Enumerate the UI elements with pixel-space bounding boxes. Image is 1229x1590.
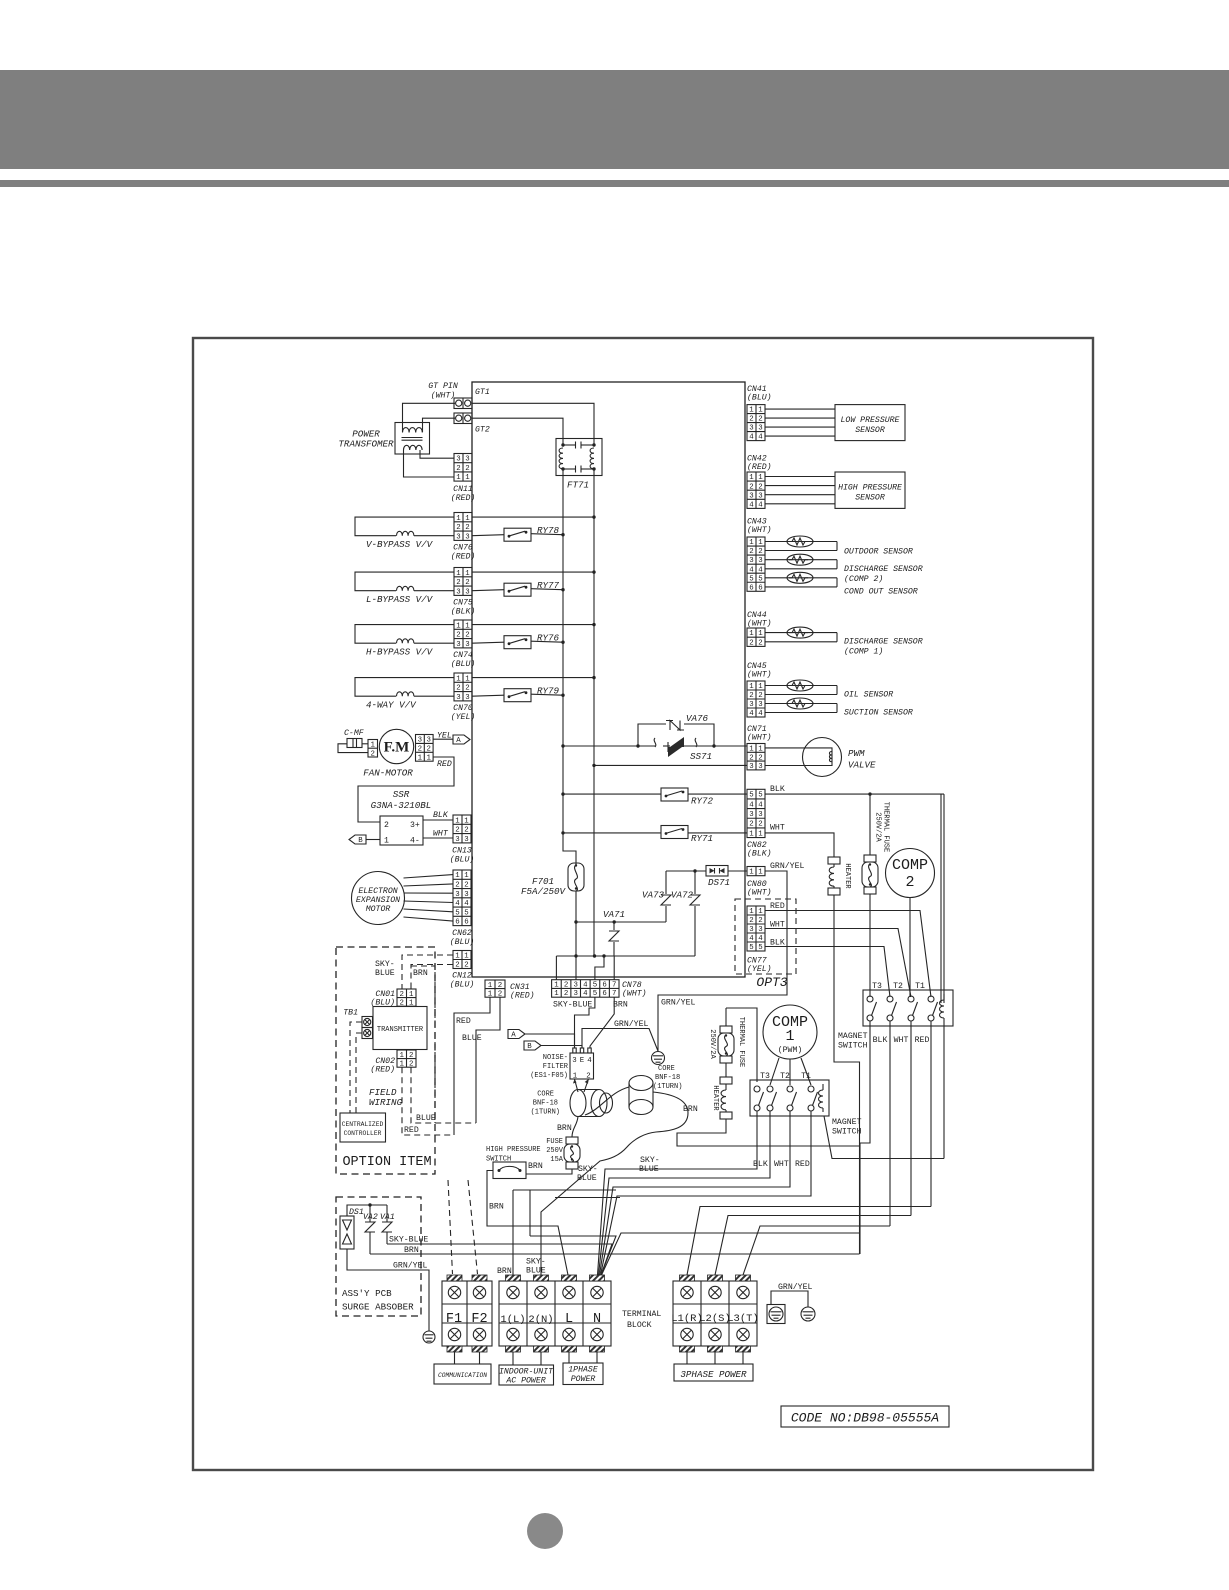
connector CN11 (RED)	[454, 454, 472, 482]
svg-text:4: 4	[749, 434, 754, 442]
svg-text:GT PIN: GT PIN	[428, 382, 458, 391]
svg-text:2: 2	[758, 754, 762, 762]
svg-text:3: 3	[455, 836, 459, 844]
wire coil link	[824, 1116, 944, 1159]
svg-text:BRN: BRN	[683, 1105, 698, 1114]
wire CN74 row1 to bus	[472, 624, 594, 626]
valve load H-BYPASS V/V	[355, 625, 454, 644]
svg-text:1: 1	[455, 817, 460, 825]
wire heater branch to N	[602, 1233, 860, 1275]
svg-text:GT2: GT2	[475, 426, 490, 435]
svg-text:1: 1	[455, 872, 460, 880]
OPT3 dashed box	[735, 899, 796, 974]
terminal block F1 F2	[442, 1281, 492, 1346]
svg-text:SKY-BLUE: SKY-BLUE	[553, 1001, 592, 1010]
svg-text:1PHASE: 1PHASE	[568, 1366, 598, 1375]
svg-text:CN11: CN11	[453, 485, 473, 494]
main PCB outline	[472, 382, 745, 977]
svg-text:5: 5	[749, 575, 753, 583]
svg-text:(WHT): (WHT)	[431, 391, 456, 401]
svg-text:2: 2	[464, 827, 468, 835]
svg-text:3+: 3+	[410, 821, 420, 830]
svg-text:B: B	[358, 837, 363, 845]
svg-text:3: 3	[465, 694, 469, 702]
svg-text:RED: RED	[915, 1036, 930, 1045]
svg-text:4: 4	[749, 566, 754, 574]
svg-text:1: 1	[758, 908, 763, 916]
valve load L-BYPASS V/V	[355, 572, 454, 591]
svg-text:1: 1	[465, 570, 470, 578]
svg-text:3: 3	[465, 456, 469, 464]
svg-text:2(N): 2(N)	[528, 1314, 553, 1326]
svg-text:2: 2	[465, 632, 469, 640]
svg-text:CN62: CN62	[452, 929, 472, 938]
svg-text:1: 1	[749, 407, 754, 415]
svg-text:RY72: RY72	[691, 796, 714, 807]
svg-text:2: 2	[370, 751, 374, 759]
svg-text:BRN: BRN	[613, 1001, 628, 1010]
svg-text:4: 4	[758, 801, 763, 809]
svg-text:2: 2	[455, 827, 459, 835]
connector CN13 (BLU)	[453, 815, 471, 843]
svg-text:5: 5	[593, 981, 597, 989]
svg-text:2: 2	[758, 917, 762, 925]
svg-text:DISCHARGE SENSOR: DISCHARGE SENSOR	[844, 638, 923, 647]
svg-text:(BLK): (BLK)	[747, 849, 772, 859]
svg-text:(WHT): (WHT)	[747, 733, 772, 743]
wire CN75 row1 to bus	[472, 571, 594, 573]
svg-text:2: 2	[456, 579, 460, 587]
svg-text:OPT3: OPT3	[756, 975, 787, 990]
svg-text:RED: RED	[770, 902, 785, 911]
electron expansion motor	[352, 872, 405, 925]
code number box	[781, 1406, 949, 1427]
svg-text:2: 2	[464, 882, 468, 890]
svg-text:TRANSFOMER: TRANSFOMER	[338, 439, 394, 450]
svg-text:2: 2	[749, 639, 753, 647]
wires magnet switch comp2 down	[860, 1021, 870, 1254]
svg-text:A: A	[456, 737, 461, 745]
svg-text:SKY-: SKY-	[640, 1156, 660, 1165]
svg-text:4: 4	[758, 935, 763, 943]
communication box	[455, 1352, 480, 1364]
svg-text:7: 7	[612, 981, 616, 989]
svg-text:WHT: WHT	[894, 1036, 909, 1045]
svg-text:BLOCK: BLOCK	[627, 1321, 652, 1330]
svg-text:VA76: VA76	[686, 713, 709, 724]
svg-text:N: N	[593, 1312, 601, 1327]
svg-text:(WHT): (WHT)	[747, 888, 772, 898]
svg-text:F1: F1	[446, 1312, 462, 1327]
wires noise filter into core1	[575, 1079, 579, 1092]
svg-text:H-BYPASS V/V: H-BYPASS V/V	[366, 647, 434, 658]
svg-text:3: 3	[465, 533, 469, 541]
svg-text:1: 1	[573, 1073, 578, 1081]
indoor unit ac power box	[513, 1352, 541, 1365]
svg-text:WHT: WHT	[774, 1160, 789, 1169]
svg-text:2: 2	[749, 754, 753, 762]
svg-text:3: 3	[456, 456, 460, 464]
svg-text:3: 3	[749, 926, 753, 934]
svg-text:C-MF: C-MF	[344, 729, 364, 738]
svg-text:FAN-MOTOR: FAN-MOTOR	[363, 768, 413, 779]
svg-text:3: 3	[749, 492, 753, 500]
heater comp2	[828, 857, 840, 864]
svg-text:3: 3	[455, 891, 459, 899]
svg-text:1: 1	[384, 837, 389, 846]
svg-text:1: 1	[554, 990, 559, 998]
connector CN82 (BLK)	[747, 789, 765, 837]
svg-text:L3(T): L3(T)	[727, 1313, 759, 1325]
dashed field wires to F1 F2	[448, 1180, 453, 1274]
svg-text:(1TURN): (1TURN)	[653, 1083, 682, 1091]
svg-text:BLUE: BLUE	[416, 1114, 436, 1123]
thermistor discharge sensor comp1	[765, 632, 837, 634]
svg-text:2: 2	[749, 821, 753, 829]
connector CN75 (BLK)	[454, 568, 472, 596]
svg-text:SKY-: SKY-	[578, 1165, 598, 1174]
svg-text:4: 4	[749, 935, 754, 943]
high pressure sensor box	[835, 472, 905, 508]
svg-text:FUSE: FUSE	[546, 1138, 563, 1146]
svg-text:1: 1	[464, 872, 469, 880]
solid state relay SS71	[654, 738, 656, 747]
earth ground (surge)	[423, 1331, 435, 1343]
wire level 1206 to L1	[687, 1207, 931, 1276]
svg-text:GRN/YEL: GRN/YEL	[614, 1019, 648, 1029]
svg-text:RY78: RY78	[537, 525, 560, 536]
svg-text:L-BYPASS V/V: L-BYPASS V/V	[366, 594, 434, 605]
svg-text:2: 2	[418, 745, 422, 753]
svg-text:1: 1	[785, 1028, 794, 1045]
svg-text:(YEL): (YEL)	[451, 712, 476, 722]
svg-text:2: 2	[758, 639, 762, 647]
svg-text:1: 1	[465, 622, 470, 630]
wire CN77 WHT to magnet switch T2	[765, 929, 911, 998]
thermistor outdoor sensor	[765, 541, 837, 543]
wire BRN from surge	[370, 1253, 860, 1255]
svg-text:BLK: BLK	[770, 785, 785, 794]
wire transformer secondary to CN11	[404, 450, 455, 477]
svg-text:1: 1	[456, 515, 461, 523]
svg-text:1: 1	[758, 746, 763, 754]
svg-text:4: 4	[749, 501, 754, 509]
svg-text:DISCHARGE SENSOR: DISCHARGE SENSOR	[844, 565, 923, 574]
svg-text:G3NA-3210BL: G3NA-3210BL	[371, 800, 432, 811]
svg-text:4: 4	[583, 990, 588, 998]
junction	[592, 623, 595, 626]
svg-text:ELECTRON: ELECTRON	[358, 887, 397, 896]
svg-text:1: 1	[749, 474, 754, 482]
svg-text:RY76: RY76	[537, 633, 560, 644]
svg-text:VA71: VA71	[603, 909, 625, 920]
svg-text:BNF-18: BNF-18	[655, 1074, 680, 1082]
svg-text:CN70: CN70	[453, 704, 473, 713]
svg-text:5: 5	[749, 944, 753, 952]
svg-text:BRN: BRN	[528, 1162, 543, 1171]
svg-text:L: L	[565, 1312, 573, 1327]
svg-text:BLUE: BLUE	[639, 1165, 659, 1174]
svg-text:2: 2	[456, 524, 460, 532]
svg-text:4: 4	[758, 434, 763, 442]
svg-text:(COMP 2): (COMP 2)	[844, 574, 883, 584]
svg-text:CONTROLLER: CONTROLLER	[344, 1130, 382, 1137]
wire CN82 BLK to thermal fuse and coil	[765, 793, 944, 795]
svg-text:1: 1	[758, 630, 763, 638]
svg-text:COMP: COMP	[892, 857, 928, 874]
svg-text:3: 3	[464, 836, 468, 844]
svg-text:BLUE: BLUE	[375, 969, 395, 978]
svg-text:SWITCH: SWITCH	[832, 1128, 862, 1137]
connector CN31 (RED)	[485, 980, 505, 997]
svg-text:CN13: CN13	[452, 847, 472, 856]
svg-text:4: 4	[464, 900, 469, 908]
svg-text:3: 3	[758, 701, 762, 709]
terminal block 3phase	[673, 1281, 757, 1346]
svg-text:1: 1	[456, 622, 461, 630]
connector CN78 (WHT)	[552, 980, 619, 998]
svg-text:2: 2	[464, 962, 468, 970]
dashed wire CN02 red	[402, 1067, 454, 1135]
svg-text:CN12: CN12	[452, 972, 472, 981]
svg-text:1: 1	[464, 953, 469, 961]
svg-text:1: 1	[749, 830, 754, 838]
svg-text:RY79: RY79	[537, 686, 560, 697]
thermistor suction sensor	[765, 703, 837, 705]
svg-text:1: 1	[464, 817, 469, 825]
svg-text:(RED): (RED)	[451, 493, 476, 503]
wire CN70 row1 to bus	[472, 677, 594, 679]
earth ground (noise filter)	[652, 1052, 665, 1065]
svg-text:V-BYPASS V/V: V-BYPASS V/V	[366, 539, 434, 550]
connector CN77 (YEL)	[747, 906, 765, 951]
svg-text:1: 1	[749, 683, 754, 691]
dashed wire CN02 blue	[411, 1067, 476, 1123]
svg-text:3: 3	[464, 891, 468, 899]
junction	[592, 570, 595, 573]
svg-text:BNF-18: BNF-18	[533, 1100, 558, 1108]
svg-text:(RED): (RED)	[510, 991, 535, 1001]
svg-text:1: 1	[456, 474, 461, 482]
svg-text:SURGE ABSOBER: SURGE ABSOBER	[342, 1302, 414, 1313]
svg-text:15A: 15A	[550, 1156, 563, 1164]
svg-text:2: 2	[758, 416, 762, 424]
relay RY79	[504, 689, 531, 702]
svg-text:THERMAL FUSE: THERMAL FUSE	[882, 802, 890, 852]
svg-text:AC POWER: AC POWER	[505, 1377, 545, 1386]
svg-text:HIGH PRESSURE: HIGH PRESSURE	[486, 1146, 541, 1154]
svg-text:2: 2	[564, 990, 568, 998]
svg-text:E: E	[580, 1057, 585, 1065]
svg-text:BRN: BRN	[404, 1246, 419, 1255]
svg-text:(YEL): (YEL)	[747, 964, 772, 974]
wire level 1226 to L3	[743, 1226, 890, 1275]
svg-text:CODE NO:DB98-05555A: CODE NO:DB98-05555A	[791, 1411, 939, 1426]
svg-text:BLUE: BLUE	[577, 1174, 597, 1183]
svg-text:4: 4	[758, 501, 763, 509]
wire level 1215 to L2	[715, 1216, 911, 1276]
svg-text:4: 4	[758, 710, 763, 718]
svg-text:4: 4	[583, 981, 588, 989]
svg-text:2: 2	[758, 692, 762, 700]
wire CN31 RED down	[454, 997, 490, 1135]
svg-text:RED: RED	[795, 1160, 810, 1169]
svg-text:(RED): (RED)	[451, 552, 476, 562]
svg-text:250V/2A: 250V/2A	[874, 812, 882, 842]
svg-text:MOTOR: MOTOR	[366, 905, 391, 914]
svg-text:CN76: CN76	[453, 544, 473, 553]
svg-text:3: 3	[465, 641, 469, 649]
wire fan row1 to SSR	[358, 757, 454, 822]
svg-text:5: 5	[464, 909, 468, 917]
svg-text:HEATER: HEATER	[843, 863, 851, 889]
svg-text:BRN: BRN	[489, 1203, 504, 1212]
surge absorber dashed box	[336, 1197, 421, 1316]
svg-text:CENTRALIZED: CENTRALIZED	[342, 1121, 384, 1128]
svg-text:4: 4	[455, 900, 460, 908]
dashed field wiring sky-blue CN12 to CN01	[402, 955, 453, 989]
svg-text:(WHT): (WHT)	[747, 670, 772, 680]
svg-text:SENSOR: SENSOR	[855, 426, 885, 435]
svg-text:SENSOR: SENSOR	[855, 494, 885, 503]
svg-text:1: 1	[465, 515, 470, 523]
svg-text:2: 2	[455, 882, 459, 890]
svg-text:BLUE: BLUE	[526, 1267, 546, 1276]
svg-text:(BLU): (BLU)	[747, 393, 772, 403]
svg-text:1: 1	[456, 570, 461, 578]
svg-text:1: 1	[749, 539, 754, 547]
svg-text:F2: F2	[471, 1312, 487, 1327]
svg-text:2: 2	[564, 981, 568, 989]
svg-text:BRN: BRN	[557, 1124, 572, 1133]
svg-text:SS71: SS71	[690, 751, 712, 762]
svg-text:1: 1	[455, 953, 460, 961]
PWM valve	[803, 738, 842, 777]
svg-text:2: 2	[456, 685, 460, 693]
svg-text:B: B	[527, 1043, 532, 1051]
diode DS71	[666, 870, 706, 872]
svg-text:2: 2	[465, 579, 469, 587]
wire level 922	[576, 921, 666, 923]
svg-text:4-WAY V/V: 4-WAY V/V	[366, 700, 417, 711]
svg-text:1: 1	[488, 982, 493, 990]
bus wire left (from FT71) down to fuse F701	[563, 469, 576, 866]
thermistor discharge sensor comp2	[765, 559, 837, 561]
svg-text:6: 6	[455, 919, 459, 927]
svg-text:3: 3	[758, 425, 762, 433]
svg-text:(COMP 1): (COMP 1)	[844, 647, 883, 657]
svg-text:3: 3	[758, 557, 762, 565]
terminal block main 1L 2N L N	[499, 1281, 611, 1346]
svg-text:250V: 250V	[546, 1147, 564, 1155]
junction	[592, 676, 595, 679]
svg-text:5: 5	[593, 990, 597, 998]
wire GT1 to FT71	[472, 403, 594, 445]
svg-text:4-: 4-	[410, 837, 420, 846]
svg-text:1: 1	[465, 675, 470, 683]
svg-text:SUCTION SENSOR: SUCTION SENSOR	[844, 709, 913, 718]
svg-text:2: 2	[465, 524, 469, 532]
svg-text:4: 4	[587, 1057, 592, 1065]
svg-text:2: 2	[749, 917, 753, 925]
wires magnet switch comp1 down to N	[598, 1111, 758, 1275]
wire CN78 col7 up to varistor node	[613, 956, 615, 980]
thermal fuse comp1	[725, 1008, 727, 1026]
relay RY72	[661, 788, 688, 801]
svg-text:3: 3	[758, 926, 762, 934]
svg-text:3: 3	[758, 763, 762, 771]
diagram frame	[193, 338, 1093, 1470]
svg-text:WIRING: WIRING	[369, 1097, 403, 1108]
svg-text:2: 2	[749, 483, 753, 491]
svg-text:PWM: PWM	[848, 748, 865, 759]
svg-text:NOISE-: NOISE-	[543, 1054, 568, 1062]
svg-text:1: 1	[400, 1052, 405, 1060]
svg-text:3: 3	[758, 811, 762, 819]
connector CN74 (BLU)	[454, 620, 472, 648]
svg-text:6: 6	[464, 919, 468, 927]
svg-text:BLK: BLK	[433, 811, 449, 820]
connector CN12 (BLU)	[453, 951, 471, 969]
svg-text:2: 2	[456, 465, 460, 473]
svg-text:GRN/YEL: GRN/YEL	[393, 1261, 427, 1271]
thermistor cond out sensor	[765, 577, 837, 579]
svg-text:A: A	[511, 1031, 516, 1039]
magnet switch comp1	[750, 1080, 829, 1116]
svg-text:2: 2	[749, 416, 753, 424]
svg-text:(RED): (RED)	[370, 1065, 395, 1075]
svg-text:5: 5	[758, 792, 762, 800]
wires COMP1 to magnet switch	[770, 1058, 779, 1085]
svg-text:TB1: TB1	[343, 1009, 358, 1018]
3phase power box	[687, 1352, 743, 1364]
svg-text:1: 1	[465, 474, 470, 482]
surge absorber top wire	[347, 1205, 387, 1216]
svg-text:RED: RED	[404, 1126, 419, 1135]
svg-text:EXPANSION: EXPANSION	[356, 896, 400, 905]
svg-text:TRANSMITTER: TRANSMITTER	[377, 1026, 424, 1034]
svg-text:MAGNET: MAGNET	[838, 1032, 868, 1041]
wire sky-blue loop through core2	[585, 1087, 629, 1115]
wire SKY-BLUE from surge	[387, 1244, 612, 1275]
thermal fuse 250V/2A comp2	[869, 794, 871, 855]
wire CN82 WHT to heater	[765, 833, 834, 857]
svg-text:(PWM): (PWM)	[778, 1045, 803, 1055]
svg-text:3: 3	[456, 694, 460, 702]
svg-text:1: 1	[554, 981, 559, 989]
svg-text:OPTION ITEM: OPTION ITEM	[342, 1155, 431, 1170]
svg-text:ASS'Y PCB: ASS'Y PCB	[342, 1288, 392, 1299]
svg-text:6: 6	[758, 584, 762, 592]
svg-text:F.M: F.M	[384, 740, 410, 756]
svg-text:2: 2	[758, 821, 762, 829]
connector CN76 (RED)	[454, 513, 472, 541]
compressor COMP 2	[886, 849, 935, 898]
svg-text:3: 3	[758, 492, 762, 500]
wire GRN/YEL from surge to earth	[347, 1249, 429, 1331]
line filter FT71	[556, 439, 602, 476]
svg-text:SKY-: SKY-	[375, 960, 395, 969]
svg-text:CORE: CORE	[537, 1091, 554, 1099]
flag arrow A (power)	[508, 1030, 525, 1039]
svg-text:LOW PRESSURE: LOW PRESSURE	[841, 416, 900, 425]
svg-text:THERMAL FUSE: THERMAL FUSE	[737, 1017, 745, 1067]
svg-text:TERMINAL: TERMINAL	[622, 1310, 661, 1319]
svg-text:6: 6	[602, 981, 606, 989]
interior wire bottom bus	[556, 955, 695, 957]
svg-text:(BLU): (BLU)	[450, 980, 475, 990]
svg-text:GRN/YEL: GRN/YEL	[770, 861, 804, 871]
